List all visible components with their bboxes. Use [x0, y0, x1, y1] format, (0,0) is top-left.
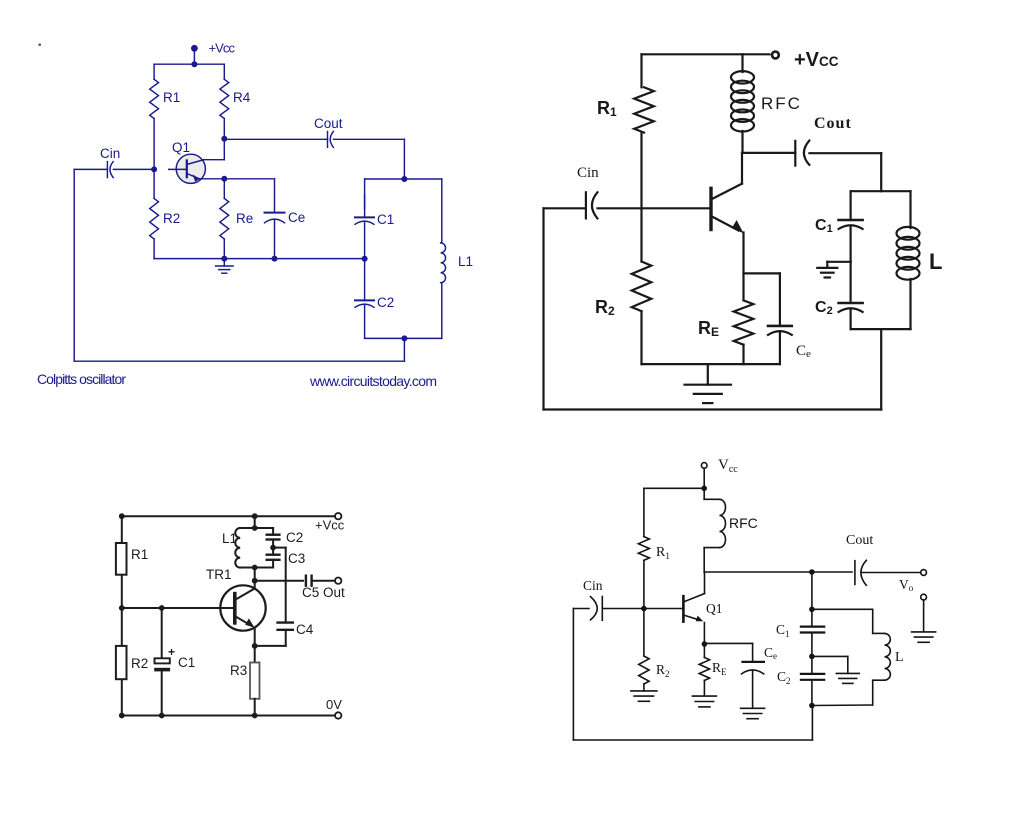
node tank mid junction: [809, 654, 815, 660]
node tank bottom junction: [809, 703, 815, 709]
wire tank top rail: [851, 190, 911, 192]
label Cout: [846, 533, 873, 548]
wire top supply rail: [154, 63, 224, 65]
svg-text:C2: C2: [777, 669, 791, 686]
node tank top junction: [809, 607, 815, 613]
svg-text:+: +: [168, 645, 175, 659]
label R2: [131, 656, 148, 671]
transistor Q (top-right): [711, 184, 744, 234]
label Cin: [577, 165, 599, 181]
node tank bottom junction: [401, 335, 407, 341]
wire tank top rail: [365, 178, 442, 180]
svg-text:R2: R2: [131, 656, 148, 671]
label R3: [230, 663, 247, 678]
ground at R2: [631, 691, 657, 701]
node collector junction: [221, 136, 227, 142]
svg-text:L1: L1: [458, 254, 473, 269]
svg-text:C1: C1: [776, 622, 790, 639]
capacitor C3: [267, 548, 280, 568]
node rail-Ce junction: [272, 256, 278, 262]
svg-text:C1: C1: [377, 212, 394, 227]
wire tank top rail: [240, 527, 273, 529]
wire tank to collector: [254, 568, 256, 589]
capacitor Cin: [573, 597, 644, 621]
resistor R1: [638, 488, 649, 608]
terminal Vo: [921, 570, 927, 576]
wire R3 bottom: [254, 699, 256, 716]
label R2: [595, 297, 615, 318]
label R1: [597, 98, 617, 119]
capacitor C4: [255, 623, 293, 646]
label RFC: [761, 94, 802, 113]
node base junction: [151, 166, 157, 172]
inductor L: [897, 191, 920, 329]
wire collector: [742, 153, 795, 184]
label www.circuitstoday.com: [309, 373, 437, 389]
label C2: [815, 299, 833, 317]
wire feedback loop: [74, 169, 404, 361]
svg-text:R1: R1: [656, 545, 670, 561]
svg-text:Vo: Vo: [899, 577, 914, 593]
node collector tank junction: [809, 569, 815, 575]
wire emitter node to Ce: [224, 178, 274, 180]
wire base rail: [122, 607, 221, 609]
svg-text:R2: R2: [656, 662, 670, 679]
label R2: [163, 211, 180, 226]
svg-text:0V: 0V: [326, 697, 342, 712]
svg-text:R2: R2: [163, 211, 180, 226]
label C5 Out: [302, 585, 345, 600]
wire collector: [704, 572, 852, 594]
wire emitter to node: [199, 178, 224, 180]
node rail tank junction: [252, 513, 258, 519]
svg-text:Cin: Cin: [583, 578, 603, 593]
wire emitter ground rail: [154, 258, 365, 260]
resistor R1: [150, 64, 159, 169]
wire emitter: [742, 233, 744, 301]
node bottom rail C1: [159, 713, 165, 719]
capacitor C2: [801, 674, 824, 706]
terminal +Vcc: [772, 52, 779, 59]
label Cin: [583, 578, 603, 593]
node collector out junction: [252, 578, 258, 584]
svg-text:RE: RE: [698, 318, 719, 339]
label L1: [222, 531, 237, 546]
ground symbol: [216, 259, 234, 274]
label Re: [236, 211, 253, 226]
label Ce: [288, 210, 305, 225]
label R4: [233, 90, 251, 105]
capacitor C2: [267, 528, 280, 548]
label C4: [296, 622, 314, 637]
label C1: [815, 217, 833, 235]
label Cin: [100, 146, 120, 161]
svg-text:Cout: Cout: [814, 115, 852, 132]
terminal +Vcc: [335, 513, 341, 519]
svg-text:Q1: Q1: [706, 601, 723, 616]
svg-text:L: L: [929, 249, 942, 274]
ground at RE: [692, 696, 716, 707]
svg-text:C4: C4: [296, 622, 314, 637]
label C1 plus: [168, 645, 175, 659]
svg-text:L: L: [895, 650, 904, 665]
label Ce: [796, 343, 811, 360]
node emitter C4 junction: [252, 643, 258, 649]
resistor R3 (box): [250, 663, 260, 699]
resistor R2 (box): [116, 646, 127, 679]
label +Vcc: [315, 518, 345, 533]
node tank bottom: [252, 565, 258, 571]
wire out: [255, 580, 303, 582]
wire collector to node: [204, 139, 225, 160]
svg-text:R1: R1: [163, 90, 180, 105]
inductor L1: [235, 528, 240, 568]
wire tank bottom rail: [240, 567, 273, 569]
label C2: [286, 530, 303, 545]
label Vo: [899, 577, 914, 593]
svg-text:Re: Re: [236, 211, 253, 226]
node emitter junction: [221, 176, 227, 182]
label Cout: [314, 116, 343, 131]
resistor RE: [734, 300, 754, 364]
svg-text:R3: R3: [230, 663, 247, 678]
wire emitter: [254, 628, 256, 663]
capacitor Cout: [224, 132, 404, 148]
svg-text:Ce: Ce: [288, 210, 305, 225]
capacitor Cin: [544, 192, 712, 218]
label L: [895, 650, 904, 665]
terminal 0V: [335, 712, 341, 718]
node bottom rail left: [119, 713, 125, 719]
label R2: [656, 662, 670, 679]
resistor R2: [632, 208, 652, 364]
label C2: [777, 669, 791, 686]
label R1: [656, 545, 670, 561]
svg-text:C1: C1: [178, 655, 195, 670]
wire tank bottom rail: [365, 337, 442, 339]
wire C2C3 to C4: [273, 548, 286, 623]
label C3: [288, 551, 305, 566]
label R1: [131, 547, 148, 562]
wire Vcc to tank: [254, 516, 256, 528]
wire emitter bottom rail: [642, 363, 780, 365]
node C2-C3 junction: [270, 545, 276, 551]
svg-text:Cin: Cin: [577, 165, 599, 181]
label Q1: [172, 140, 190, 155]
label 0V: [326, 697, 342, 712]
wire Cout to tank: [403, 139, 405, 179]
svg-text:Q1: Q1: [172, 140, 190, 155]
node rail left corner: [119, 513, 125, 519]
capacitor Cin: [74, 162, 154, 178]
node tank top: [252, 525, 258, 531]
wire emitter: [703, 623, 705, 645]
capacitor C2: [839, 262, 863, 329]
node rail-Re junction: [221, 256, 227, 262]
svg-text:R2: R2: [595, 297, 615, 318]
wire bottom rail 0V: [122, 715, 335, 717]
svg-text:R1: R1: [131, 547, 148, 562]
capacitor C1: [355, 179, 374, 259]
inductor RFC: [704, 488, 725, 572]
svg-text:Ce: Ce: [796, 343, 811, 360]
svg-text:L1: L1: [222, 531, 237, 546]
capacitor Ce: [744, 273, 792, 364]
capacitor C5: [306, 576, 335, 586]
node Vcc junction: [701, 486, 707, 492]
ground at Ce: [741, 708, 765, 718]
node bottom rail R3: [252, 713, 258, 719]
resistor R1 (box): [116, 543, 127, 575]
inductor RFC: [731, 54, 754, 153]
ground tank mid: [812, 656, 859, 683]
label L: [929, 249, 942, 274]
node tank mid junction: [362, 256, 368, 262]
inductor L: [812, 609, 890, 705]
ground at Vo: [912, 632, 936, 642]
capacitor C2: [355, 259, 374, 339]
node base left junction: [119, 605, 125, 611]
capacitor C1 electrolytic: [154, 608, 170, 716]
svg-text:www.circuitstoday.com: www.circuitstoday.com: [309, 373, 437, 389]
terminal ground stub: [921, 594, 927, 631]
label Cout: [814, 115, 852, 132]
resistor RE: [699, 644, 709, 695]
svg-text:RFC: RFC: [729, 515, 758, 531]
resistor R4: [220, 64, 229, 139]
svg-text:C5 Out: C5 Out: [302, 585, 345, 600]
label RE: [712, 660, 727, 677]
svg-text:C2: C2: [377, 295, 394, 310]
node +Vcc supply dot: [191, 45, 198, 67]
label C2: [377, 295, 394, 310]
label C1: [178, 655, 195, 670]
svg-text:C3: C3: [288, 551, 305, 566]
svg-text:C2: C2: [286, 530, 303, 545]
ground main: [685, 364, 732, 403]
inductor L1: [441, 179, 446, 338]
label +Vcc: [209, 41, 236, 56]
transistor Q1: [644, 594, 705, 622]
svg-text:Vcc: Vcc: [718, 457, 738, 475]
svg-text:C1: C1: [815, 217, 833, 235]
capacitor Ce: [265, 179, 285, 259]
resistor Re: [220, 179, 229, 259]
svg-text:Colpitts oscillator: Colpitts oscillator: [37, 371, 126, 387]
wire supply rail: [644, 487, 704, 489]
stray dot mark: [39, 44, 41, 46]
wire top supply rail: [122, 515, 335, 517]
label Q1: [706, 601, 723, 616]
capacitor C1: [801, 627, 824, 674]
label R1: [163, 90, 180, 105]
resistor R2: [150, 169, 159, 258]
transistor TR1: [220, 585, 265, 630]
wire feedback loop: [573, 609, 812, 741]
node base C1 junction: [159, 605, 165, 611]
wire tank column: [811, 572, 813, 627]
label Ce: [764, 645, 777, 661]
label C1: [377, 212, 394, 227]
node emitter junction: [702, 641, 708, 647]
svg-text:Ce: Ce: [764, 645, 777, 661]
ground tank: [817, 262, 850, 278]
wire left column: [121, 516, 123, 715]
label Colpitts oscillator: [37, 371, 126, 387]
capacitor Cout: [855, 560, 921, 585]
wire feedback loop: [544, 208, 882, 409]
label RE: [698, 318, 719, 339]
wire top supply rail: [642, 53, 770, 55]
svg-text:C2: C2: [815, 299, 833, 317]
svg-text:Cout: Cout: [314, 116, 343, 131]
svg-text:+Vcc: +Vcc: [209, 41, 236, 56]
label +Vcc: [794, 49, 839, 71]
label RFC: [729, 515, 758, 531]
label C1: [776, 622, 790, 639]
capacitor Ce: [704, 643, 764, 707]
svg-text:RFC: RFC: [761, 94, 802, 113]
svg-text:+VCC: +VCC: [794, 49, 839, 71]
terminal Vcc: [701, 463, 707, 489]
svg-text:TR1: TR1: [206, 567, 232, 582]
svg-text:Cin: Cin: [100, 146, 120, 161]
svg-text:+Vcc: +Vcc: [315, 518, 345, 533]
wire Cout to tank: [880, 153, 882, 191]
svg-text:Cout: Cout: [846, 533, 873, 548]
resistor R1: [634, 54, 654, 208]
svg-text:R1: R1: [597, 98, 617, 119]
svg-text:R4: R4: [233, 90, 251, 105]
transistor Q1: [169, 154, 206, 183]
resistor R2: [639, 609, 649, 691]
label L1: [458, 254, 473, 269]
node base junction: [641, 606, 647, 612]
label TR1: [206, 567, 232, 582]
capacitor C1: [839, 191, 863, 262]
capacitor Cout: [795, 141, 881, 166]
svg-text:RE: RE: [712, 660, 727, 677]
label Vcc: [718, 457, 738, 475]
terminal Out: [335, 578, 341, 584]
wire tank bottom rail: [851, 328, 911, 330]
node tank top junction: [401, 176, 407, 182]
